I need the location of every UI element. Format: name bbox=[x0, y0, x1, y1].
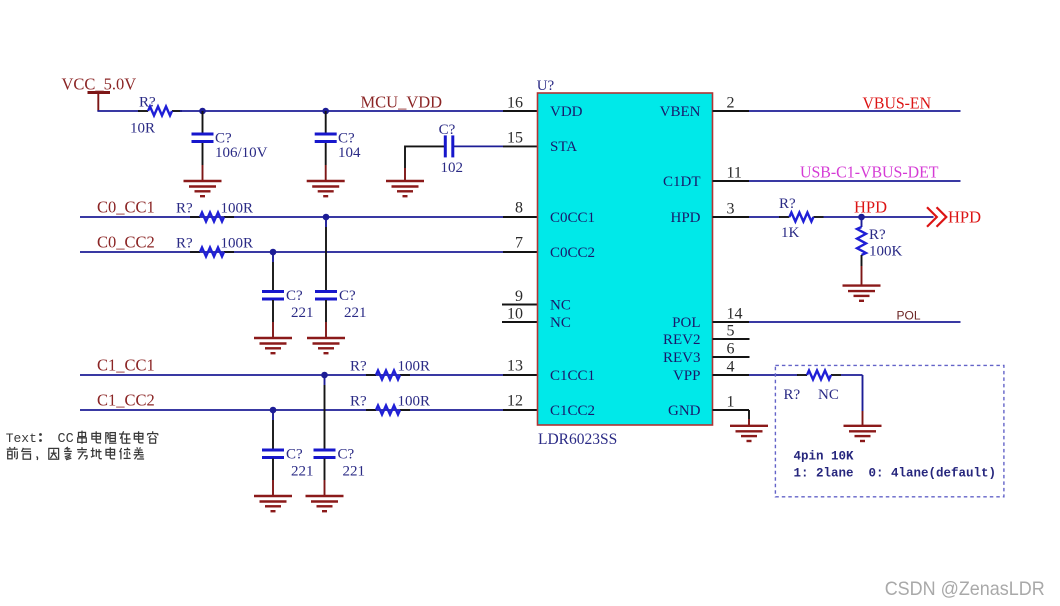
svg-text:8: 8 bbox=[515, 200, 523, 217]
svg-text:NC: NC bbox=[550, 315, 571, 331]
svg-text:HPD: HPD bbox=[670, 210, 700, 226]
pin 1 stub bbox=[713, 409, 750, 411]
svg-text:U?: U? bbox=[537, 78, 555, 94]
svg-text:C?: C? bbox=[339, 288, 356, 304]
svg-text:1: 2lane 0: 4lane(default): 1: 2lane 0: 4lane(default) bbox=[794, 467, 997, 481]
ground under C2 bbox=[184, 181, 222, 196]
svg-text:5: 5 bbox=[727, 323, 735, 340]
node junction at C3 bbox=[322, 108, 329, 115]
svg-text:LDR6023SS: LDR6023SS bbox=[538, 431, 617, 448]
pin 16 stub bbox=[503, 110, 538, 112]
svg-text:VDD: VDD bbox=[550, 104, 583, 120]
pin 3 stub bbox=[713, 216, 750, 218]
svg-text:HPD: HPD bbox=[948, 208, 981, 227]
wire C1_CC2 bbox=[80, 409, 503, 411]
pin 14 stub bbox=[713, 321, 750, 323]
svg-text:14: 14 bbox=[727, 306, 743, 323]
svg-text:STA: STA bbox=[550, 139, 577, 155]
port arrow HPD bbox=[928, 208, 947, 226]
svg-text:CC: CC bbox=[58, 432, 74, 447]
pin 7 stub bbox=[503, 251, 538, 253]
svg-text:9: 9 bbox=[515, 288, 523, 305]
svg-text:C1DT: C1DT bbox=[663, 174, 701, 190]
svg-text:100R: 100R bbox=[221, 236, 254, 252]
svg-text:MCU_VDD: MCU_VDD bbox=[361, 93, 443, 112]
svg-text:2: 2 bbox=[727, 95, 735, 112]
svg-text:R?: R? bbox=[784, 387, 801, 403]
node junction C1_CC2 to C7 bbox=[270, 407, 277, 414]
svg-text:C1CC2: C1CC2 bbox=[550, 403, 595, 419]
svg-text:16: 16 bbox=[507, 95, 523, 112]
svg-text:HPD: HPD bbox=[854, 198, 887, 217]
svg-text:C0_CC2: C0_CC2 bbox=[97, 233, 155, 252]
svg-text:100R: 100R bbox=[221, 201, 254, 217]
resistor R6 1K bbox=[779, 213, 824, 222]
pin 13 stub bbox=[503, 374, 538, 376]
svg-text:C0_CC1: C0_CC1 bbox=[97, 198, 155, 217]
pin 9 stub bbox=[502, 304, 538, 306]
ground under C8 bbox=[306, 496, 344, 511]
node HPD junction bbox=[858, 214, 865, 221]
resistor R4 100R bbox=[366, 371, 410, 380]
wire POL bbox=[749, 321, 961, 323]
wire VCC to R bbox=[97, 110, 140, 112]
svg-text:NC: NC bbox=[550, 298, 571, 314]
resistor R3 100R bbox=[190, 248, 234, 257]
pin 8 stub bbox=[503, 216, 538, 218]
wire pin3 to R6 bbox=[749, 216, 780, 218]
capacitor C7 221 bbox=[262, 410, 284, 496]
svg-text:3: 3 bbox=[727, 201, 735, 218]
svg-text:4: 4 bbox=[727, 359, 735, 376]
wire C4 to pin 15 bbox=[454, 145, 503, 147]
resistor R7 100K vertical bbox=[857, 217, 866, 286]
svg-text:6: 6 bbox=[727, 341, 735, 358]
wire R6 to HPD node bbox=[824, 216, 934, 218]
svg-text:102: 102 bbox=[441, 160, 464, 176]
node junction C0_CC2 to C5 bbox=[270, 249, 277, 256]
svg-text:R?: R? bbox=[139, 95, 156, 111]
capacitor C6 221 bbox=[315, 217, 337, 338]
pin 11 stub bbox=[713, 180, 750, 182]
svg-text:REV2: REV2 bbox=[663, 332, 701, 348]
power symbol VCC_5.0V bar bbox=[88, 91, 111, 94]
ground under C3 bbox=[307, 181, 345, 196]
svg-text:CSDN @ZenasLDR: CSDN @ZenasLDR bbox=[885, 578, 1045, 600]
svg-text:1K: 1K bbox=[781, 225, 800, 241]
svg-text:R?: R? bbox=[350, 359, 367, 375]
ground under C5 bbox=[254, 338, 292, 353]
pin 6 stub bbox=[713, 356, 750, 358]
wire VBUS-EN bbox=[749, 110, 961, 112]
pin 12 stub bbox=[503, 409, 538, 411]
wire USB-C1-VBUS-DET bbox=[749, 180, 961, 182]
svg-text:C?: C? bbox=[286, 447, 303, 463]
ground under R8 bbox=[844, 426, 882, 441]
wire pin1 to ground bbox=[748, 410, 750, 426]
svg-text:C1CC1: C1CC1 bbox=[550, 368, 595, 384]
svg-text:104: 104 bbox=[338, 145, 361, 161]
svg-text:10: 10 bbox=[507, 306, 523, 323]
resistor R2 100R bbox=[190, 213, 234, 222]
wire pin15 left corner bbox=[405, 146, 444, 182]
capacitor C8 221 bbox=[314, 375, 336, 496]
svg-text:100K: 100K bbox=[869, 244, 903, 260]
pin 4 stub bbox=[713, 374, 750, 376]
svg-text:USB-C1-VBUS-DET: USB-C1-VBUS-DET bbox=[800, 163, 939, 182]
wire C0_CC2 bbox=[80, 251, 503, 253]
capacitor C5 221 bbox=[262, 252, 284, 338]
svg-text:100R: 100R bbox=[398, 359, 431, 375]
note Text CC line 2 bbox=[7, 447, 18, 459]
svg-text:REV3: REV3 bbox=[663, 350, 701, 366]
svg-text:GND: GND bbox=[668, 403, 701, 419]
wire pin4 to R8 bbox=[749, 374, 798, 376]
pin 2 stub bbox=[713, 110, 750, 112]
svg-text:221: 221 bbox=[343, 464, 366, 480]
ground under C4 bbox=[386, 181, 424, 196]
capacitor C4 102 bbox=[445, 135, 453, 157]
wire C1_CC1 bbox=[80, 374, 503, 376]
svg-text:13: 13 bbox=[507, 358, 523, 375]
pin 10 stub bbox=[502, 321, 538, 323]
svg-text:12: 12 bbox=[507, 393, 523, 410]
resistor R5 100R bbox=[366, 406, 410, 415]
node junction C1_CC1 to C8 bbox=[321, 372, 328, 379]
node junction C0_CC1 to C6 bbox=[323, 214, 330, 221]
wire R8 to ground corner bbox=[841, 375, 863, 426]
svg-text:C0CC2: C0CC2 bbox=[550, 245, 595, 261]
svg-text:R?: R? bbox=[779, 196, 796, 212]
wire MCU_VDD rail bbox=[180, 110, 503, 112]
op-amp U1 LDR6023SS body bbox=[538, 93, 713, 425]
svg-text:VBEN: VBEN bbox=[660, 104, 701, 120]
svg-text:221: 221 bbox=[344, 305, 367, 321]
svg-text:Text: Text bbox=[6, 431, 37, 446]
svg-text:VCC_5.0V: VCC_5.0V bbox=[62, 75, 137, 94]
svg-text:NC: NC bbox=[818, 387, 839, 403]
resistor R8 NC 10K bbox=[797, 371, 841, 380]
svg-text:1: 1 bbox=[727, 394, 735, 411]
resistor R1 10R bbox=[138, 107, 182, 116]
svg-text:C?: C? bbox=[439, 122, 456, 138]
svg-text:106/10V: 106/10V bbox=[215, 145, 268, 161]
node junction at C2 bbox=[199, 108, 206, 115]
svg-text:C1_CC2: C1_CC2 bbox=[97, 391, 155, 410]
svg-text:POL: POL bbox=[672, 315, 700, 331]
svg-text:C?: C? bbox=[286, 288, 303, 304]
capacitor C3 104 bbox=[315, 111, 337, 181]
svg-text:R?: R? bbox=[350, 394, 367, 410]
dashed option box bbox=[775, 365, 1004, 496]
svg-text:11: 11 bbox=[727, 165, 742, 182]
svg-text:221: 221 bbox=[291, 464, 314, 480]
svg-text:221: 221 bbox=[291, 305, 314, 321]
svg-text:R?: R? bbox=[176, 236, 193, 252]
ground under pin 1 bbox=[730, 426, 768, 441]
svg-text:POL: POL bbox=[897, 309, 921, 323]
wire C0_CC1 bbox=[80, 216, 503, 218]
capacitor C2 106/10V bbox=[192, 111, 214, 181]
svg-text:C1_CC1: C1_CC1 bbox=[97, 356, 155, 375]
svg-text:R?: R? bbox=[869, 227, 886, 243]
svg-text:R?: R? bbox=[176, 201, 193, 217]
svg-text:C?: C? bbox=[338, 447, 355, 463]
ground under C7 bbox=[254, 496, 292, 511]
ground under C6 bbox=[307, 338, 345, 353]
pin 5 stub bbox=[713, 338, 750, 340]
svg-text:100R: 100R bbox=[398, 394, 431, 410]
svg-text:7: 7 bbox=[515, 235, 523, 252]
svg-text:C0CC1: C0CC1 bbox=[550, 210, 595, 226]
svg-text:VBUS-EN: VBUS-EN bbox=[863, 94, 932, 113]
svg-text:VPP: VPP bbox=[673, 368, 701, 384]
svg-text:10R: 10R bbox=[130, 121, 155, 137]
svg-text:4pin 10K: 4pin 10K bbox=[794, 450, 855, 464]
ground under R7 bbox=[843, 286, 881, 301]
pin 15 stub bbox=[503, 145, 538, 147]
svg-text:15: 15 bbox=[507, 130, 523, 147]
